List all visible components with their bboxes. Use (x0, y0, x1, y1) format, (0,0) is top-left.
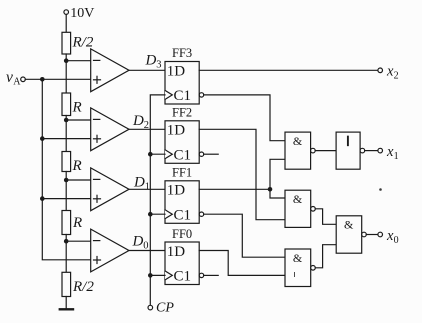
wire CP bus (150, 95, 165, 305)
svg-text:1: 1 (145, 181, 150, 192)
comparator U1 (91, 49, 129, 92)
svg-text:3: 3 (156, 60, 161, 71)
comparator U2 (91, 108, 129, 151)
svg-text:R/2: R/2 (72, 279, 94, 295)
svg-text:&: & (293, 134, 303, 148)
svg-text:C1: C1 (174, 269, 192, 285)
svg-text:C1: C1 (174, 147, 192, 163)
svg-text:FF2: FF2 (172, 106, 192, 120)
node tap2 (64, 118, 69, 123)
wire FF1 Q (199, 188, 270, 190)
wire ladder segment R2 to R3 (65, 172, 67, 211)
wire FF0 Qbar stub (204, 274, 219, 276)
wire 10V to R/2 (65, 14, 67, 32)
svg-text:FF0: FF0 (172, 227, 192, 241)
wire vA vertical bus (42, 79, 90, 259)
x2 output terminal (378, 68, 383, 73)
wire G1 to I1 (315, 150, 336, 152)
wire tap2 to comparator U2 minus (66, 119, 91, 121)
node tap3 (64, 178, 69, 183)
wire vA tap to comparator U2 plus (42, 138, 90, 140)
svg-text:R: R (72, 100, 82, 116)
wire G3 to G4 (315, 245, 336, 268)
x1 output terminal (378, 148, 383, 153)
node vA bus top (40, 77, 45, 82)
nand gate G4 (336, 216, 362, 253)
svg-text:D: D (132, 113, 144, 129)
svg-text:1D: 1D (167, 123, 186, 139)
svg-text:D: D (133, 174, 145, 190)
wire FF2 Q to gate G2 (199, 129, 285, 219)
svg-text:CP: CP (156, 301, 174, 316)
wire ladder segment R3 to bottom R/2 (65, 235, 67, 273)
svg-text:D: D (132, 234, 144, 250)
svg-text:A: A (13, 76, 21, 87)
wire U3 output D1 (129, 188, 165, 190)
FF1 Qbar bubble (199, 212, 203, 216)
svg-text:FF1: FF1 (172, 166, 192, 180)
wire CP stub FF0 (150, 274, 165, 276)
vA input terminal (21, 77, 26, 82)
wire G2 to G4 (315, 209, 336, 225)
wire I1 to x1 (365, 150, 378, 152)
wire FF1 Qbar to gate G3 (204, 214, 285, 257)
10V supply terminal (64, 10, 69, 15)
node vA tap U3 (40, 196, 45, 201)
ground (60, 308, 73, 310)
wire U2 output D2 (129, 128, 165, 130)
svg-text:&: & (293, 251, 303, 265)
comparator U3 (91, 168, 129, 211)
svg-text:&: & (293, 192, 303, 206)
wire FF1 Q up to gate G1 (270, 159, 285, 189)
svg-text:10V: 10V (70, 6, 94, 21)
wire FF3 Qbar to gate G1 (204, 95, 285, 141)
svg-text:&: & (344, 218, 354, 232)
buffer gate I1 (336, 132, 360, 169)
resistor R2 (62, 152, 71, 172)
comparator U4 (91, 229, 129, 272)
resistor R3 (62, 211, 71, 235)
flip-flop FF1 (165, 181, 199, 224)
FF3 Qbar bubble (199, 93, 203, 97)
wire FF2 Qbar stub (204, 153, 219, 155)
node CP-FF2 (148, 152, 153, 157)
svg-text:1D: 1D (167, 244, 186, 260)
FF2 Qbar bubble (199, 152, 203, 156)
svg-text:v: v (6, 69, 13, 86)
wire FF1 Q down to gate G2 (270, 189, 285, 198)
resistor R/2 (bottom) (62, 272, 71, 296)
svg-text:1D: 1D (167, 183, 186, 199)
node tap4 (64, 239, 69, 244)
resistor R/2 (top) (62, 32, 71, 54)
svg-text:0: 0 (394, 235, 399, 246)
svg-text:FF3: FF3 (172, 46, 192, 60)
node tap1 (64, 58, 69, 63)
CP input terminal (148, 305, 153, 310)
x0 output terminal (378, 232, 383, 237)
flip-flop FF3 (165, 62, 199, 105)
wire ladder segment R/2 to R1 (65, 54, 67, 93)
nand gate G3 (285, 249, 311, 287)
wire U1 output D3 (129, 69, 165, 71)
svg-text:R: R (72, 215, 82, 231)
svg-text:1D: 1D (167, 63, 186, 79)
node CP-FF0 (148, 273, 153, 278)
flip-flop FF0 (165, 242, 199, 285)
node FF1 Q junction (268, 187, 273, 192)
flip-flop FF2 (165, 121, 199, 164)
wire bottom R/2 to ground (65, 297, 67, 310)
wire vA to comparator U1 plus (25, 78, 90, 80)
wire vA tap to comparator U3 plus (42, 198, 90, 200)
svg-text:2: 2 (394, 71, 399, 82)
stray speck (379, 188, 382, 191)
wire ladder segment R1 to R2 (65, 116, 67, 152)
nand gate G2 (285, 190, 311, 227)
wire tap4 to comparator U4 minus (66, 240, 91, 242)
svg-text:0: 0 (143, 241, 148, 252)
wire tap1 to comparator U1 minus (66, 60, 91, 62)
wire G4 to x0 (366, 234, 378, 236)
wire tap3 to comparator U3 minus (66, 179, 91, 181)
node vA tap U2 (40, 136, 45, 141)
svg-text:C1: C1 (174, 88, 192, 104)
node CP-FF1 (148, 212, 153, 217)
nand gate G1 (285, 132, 311, 169)
wire CP stub FF1 (150, 213, 165, 215)
svg-text:1: 1 (394, 151, 399, 162)
wire FF3 Q to x2 (199, 69, 378, 71)
wire U4 output D0 (129, 250, 165, 252)
svg-text:D: D (145, 53, 157, 69)
svg-text:C1: C1 (174, 207, 192, 223)
FF0 Qbar bubble (199, 273, 203, 277)
artifact mark in G3 (294, 273, 296, 277)
wire CP stub FF2 (150, 153, 165, 155)
resistor R1 (62, 93, 71, 116)
svg-text:R: R (72, 158, 82, 174)
svg-text:2: 2 (144, 120, 149, 131)
wire FF0 Q to gate G3 (199, 251, 285, 276)
